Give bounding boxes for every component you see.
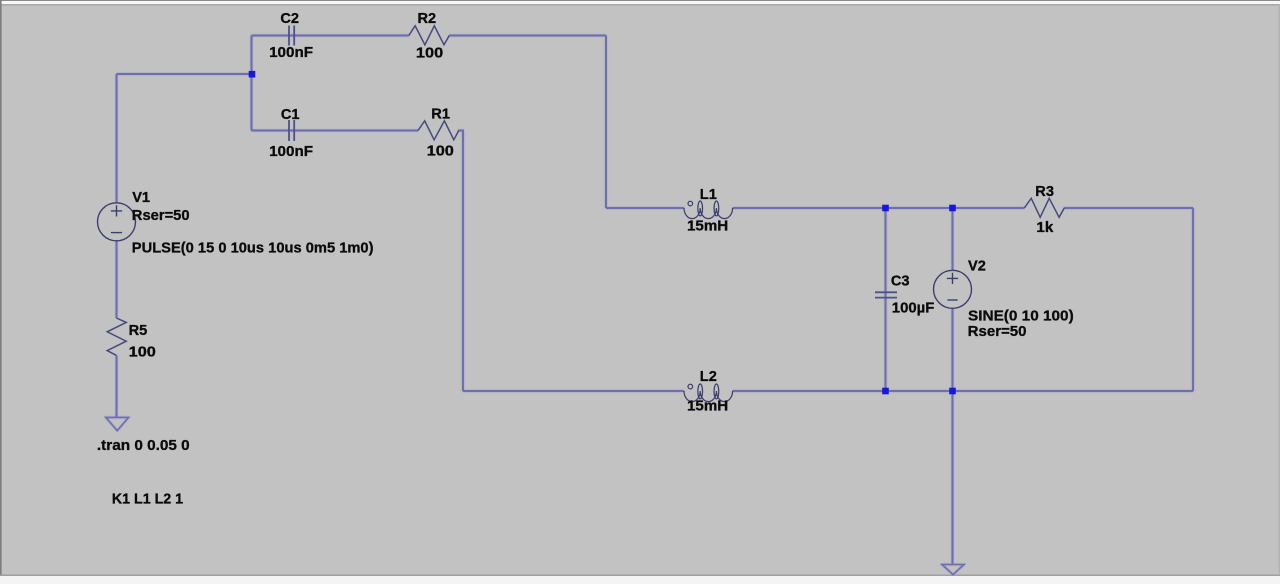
svg-text:100: 100 — [129, 344, 156, 360]
svg-text:100nF: 100nF — [269, 144, 313, 160]
wire right vertical x=1193 — [1192, 208, 1194, 391]
resistor R2 — [409, 26, 450, 45]
wire vertical x=606 down to L1 row — [605, 36, 607, 209]
svg-text:C1: C1 — [281, 107, 300, 123]
svg-text:.tran 0 0.05 0: .tran 0 0.05 0 — [97, 438, 190, 454]
wire bottom row right segment — [733, 390, 1193, 392]
capacitor C1 — [289, 120, 294, 141]
voltage source V1 — [98, 203, 136, 241]
wire bottom row left segment — [463, 390, 684, 392]
window bottom status strip — [0, 576, 1280, 584]
junction node bottom row / V2 — [949, 388, 956, 395]
wire R5 to ground — [116, 356, 118, 418]
wire C1/R1 row — [252, 130, 419, 132]
wire vertical x=463 from R1 down to L2 row — [458, 131, 463, 392]
junction node bottom row / C3 — [882, 388, 889, 395]
svg-text:V1: V1 — [132, 190, 150, 206]
wire V1 top horizontal y=74 — [117, 73, 252, 75]
svg-text:PULSE(0 15 0 10us 10us 0m5 1m0: PULSE(0 15 0 10us 10us 0m5 1m0) — [132, 241, 374, 257]
svg-text:100µF: 100µF — [892, 300, 935, 316]
svg-text:K1 L1 L2 1: K1 L1 L2 1 — [112, 491, 183, 507]
wire V2 to ground — [952, 391, 954, 565]
svg-text:15mH: 15mH — [687, 398, 728, 414]
svg-text:L2: L2 — [700, 369, 717, 385]
wire top horizontal (C2/R2 row) — [252, 35, 409, 37]
svg-text:C3: C3 — [891, 274, 910, 290]
svg-text:R2: R2 — [418, 11, 437, 27]
svg-text:L1: L1 — [700, 187, 717, 203]
svg-text:Rser=50: Rser=50 — [132, 208, 190, 224]
svg-text:R1: R1 — [431, 107, 450, 123]
svg-text:100nF: 100nF — [269, 45, 313, 61]
junction node L1 row / C3 — [882, 205, 889, 212]
wire V2 lower vertical — [952, 309, 954, 392]
window top inner shadow line — [1, 4, 1280, 6]
resistor R5 — [107, 318, 126, 355]
junction node at V1 branch — [249, 71, 256, 78]
svg-text:SINE(0 10 100): SINE(0 10 100) — [968, 308, 1074, 324]
wire R3 to right corner — [1064, 207, 1193, 209]
inductor L1 — [684, 201, 733, 219]
window top light strip — [1, 1, 1280, 4]
junction node L1 row / V2 — [949, 205, 956, 212]
svg-text:100: 100 — [416, 46, 443, 62]
capacitor C2 — [289, 26, 294, 46]
wire top row right of R2 — [449, 35, 606, 37]
ground symbol under R5 — [106, 417, 129, 430]
voltage source V2 — [934, 270, 972, 308]
svg-text:R5: R5 — [129, 323, 148, 339]
svg-text:V2: V2 — [968, 258, 986, 274]
window bottom separator line — [0, 575, 1280, 577]
wire V1 upper vertical — [116, 74, 118, 203]
window right edge — [1279, 4, 1280, 575]
resistor R3 — [1024, 198, 1064, 217]
svg-text:1k: 1k — [1036, 220, 1054, 236]
wire L1 row left segment — [606, 207, 684, 209]
resistor R1 — [418, 121, 459, 140]
wire V1 to R5 — [116, 241, 118, 319]
wire vertical x=251.5 from top row to C1 row — [251, 36, 253, 131]
svg-text:100: 100 — [427, 144, 454, 160]
ground symbol under V2 — [942, 565, 964, 575]
svg-text:C2: C2 — [280, 11, 299, 27]
wire C3 vertical — [885, 208, 887, 391]
svg-text:15mH: 15mH — [687, 219, 728, 235]
svg-text:R3: R3 — [1035, 184, 1054, 200]
window left dark edge — [0, 0, 2, 576]
wire L1 row right segment through junctions — [733, 207, 1025, 209]
svg-text:Rser=50: Rser=50 — [968, 324, 1027, 340]
capacitor C3 — [875, 292, 897, 297]
window top dark edge — [0, 0, 1280, 1]
wire V2 upper vertical — [952, 208, 954, 271]
inductor L2 — [684, 384, 733, 402]
